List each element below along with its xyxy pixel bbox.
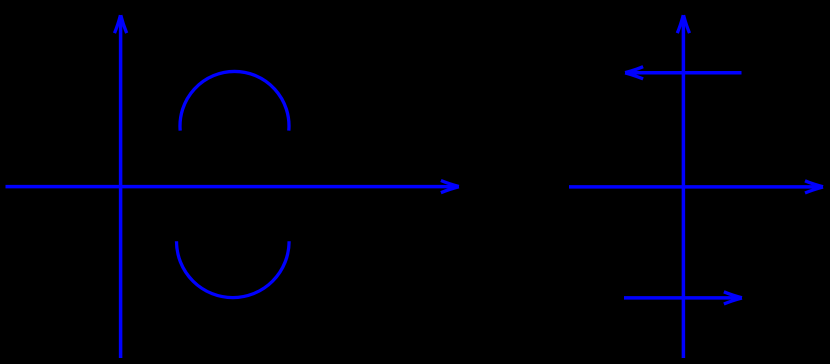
right diagram vertical axis (y-axis, arrow up): [677, 15, 689, 358]
lower arc (circle arc with gap at top): [177, 241, 290, 297]
lower horizontal line with right arrow (right diagram): [624, 292, 742, 304]
upper horizontal line with left arrow (right diagram): [625, 67, 741, 79]
upper arc (circle arc with gap at bottom): [180, 71, 289, 130]
left diagram horizontal axis (x-axis, arrow right): [6, 181, 459, 193]
left diagram vertical axis (y-axis, arrow up): [115, 15, 127, 358]
right diagram horizontal axis (x-axis, arrow right): [569, 181, 823, 193]
